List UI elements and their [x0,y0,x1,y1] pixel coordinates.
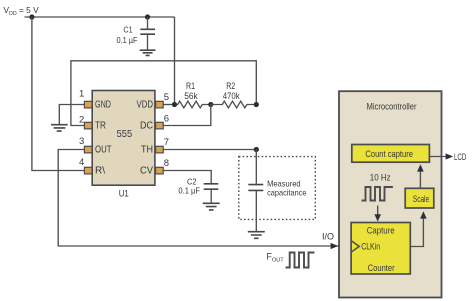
pin number 2 [79,115,84,126]
svg-text:R2: R2 [226,81,235,91]
wire TR pin2 to TH node link [71,61,256,126]
svg-text:Scale: Scale [413,194,429,205]
pin 2 [84,122,92,129]
svg-text:10 Hz: 10 Hz [370,172,391,183]
pin label TH [141,145,153,156]
node R2 right junction [254,102,259,107]
svg-text:FOUT: FOUT [267,251,285,263]
svg-text:6: 6 [164,114,169,125]
label CLKin [361,242,380,253]
pin 4 [84,167,92,174]
node C1 tap junction [145,14,150,19]
svg-text:555: 555 [117,128,133,140]
svg-text:470k: 470k [223,91,240,101]
svg-text:C1: C1 [123,24,132,34]
label Capture [367,225,395,236]
svg-text:Capture: Capture [367,225,395,236]
pin number 8 [164,158,169,169]
svg-text:0.1 µF: 0.1 µF [117,35,138,45]
ground below C1 [140,50,156,55]
ic 555 U1 body [92,91,155,186]
svg-text:Microcontroller: Microcontroller [367,101,417,112]
svg-text:R\: R\ [95,166,105,177]
label Count capture [365,149,413,160]
label R2 470k [223,81,240,101]
pin 7 [156,146,164,153]
svg-text:CV: CV [140,166,153,177]
wire measured capacitor to ground [255,190,257,231]
label Scale [413,194,429,205]
ground below C2 [203,203,220,210]
wire scale to count capture [417,164,424,188]
wire count capture to LCD [429,156,447,158]
value label C2 0.1 uF [178,177,200,196]
capacitor C2 [204,184,219,203]
node TH junction [254,147,259,152]
clock input triangle CLKin [351,241,359,253]
svg-text:R1: R1 [186,81,195,91]
pin 5 [156,101,164,108]
label 10 Hz [370,172,391,183]
pin number 6 [164,114,169,125]
wire top VDD rail [25,16,175,18]
pin number 3 [79,136,84,147]
svg-text:TR: TR [95,121,106,132]
capacitor measured [248,185,263,191]
wire node into measured capacitor [255,150,257,184]
svg-text:56k: 56k [184,91,198,101]
label I/O [322,232,334,242]
wire pin1 GND to ground [59,105,85,125]
value label C1 0.1 uF [117,24,138,45]
pin label R\ [95,166,105,177]
svg-text:7: 7 [164,137,169,148]
svg-text:DC: DC [140,121,153,132]
pin number 1 [79,88,84,99]
label Microcontroller [367,101,417,112]
block count capture [352,145,430,163]
pin 8 [156,167,164,174]
waveform FOUT [286,253,315,268]
waveform 10 Hz [362,187,393,201]
label R1 56k [184,81,198,101]
ground below measured capacitor [248,232,265,239]
label Counter [368,263,395,274]
wire OUT pin3 to bottom rail to microcontroller [58,150,351,247]
svg-text:CLKin: CLKin [361,242,380,253]
dashed box measured capacitance [239,157,315,220]
wire pin5 to R1 [164,104,175,106]
svg-text:GND: GND [95,100,111,111]
wire R1R2 junction to DC pin6 [164,105,211,126]
svg-text:3: 3 [79,136,84,147]
label FOUT [267,251,285,263]
svg-text:LCD: LCD [454,152,466,163]
arrow into microcontroller [331,243,339,249]
pin number 5 [164,92,169,103]
ic label 555 [117,128,133,140]
pin 6 [156,122,164,129]
capacitor C1 [140,17,155,50]
label LCD [454,152,466,163]
svg-text:0.1 µF: 0.1 µF [178,186,200,196]
block scale [405,188,434,208]
arrow waveform to capture [374,206,381,222]
wire CV pin8 to C2 [164,171,212,184]
pin number 4 [79,157,84,168]
microcontroller box [339,91,442,297]
pin label OUT [95,145,112,156]
svg-text:U1: U1 [119,188,129,199]
svg-text:capacitance: capacitance [267,187,307,197]
svg-text:5: 5 [164,92,169,103]
svg-text:1: 1 [79,88,84,99]
svg-text:Count capture: Count capture [365,149,413,160]
node R1 left junction [172,102,177,107]
arrow to LCD [446,153,454,159]
node VDD junction [29,14,34,19]
pin label CV [140,166,153,177]
pin 3 [84,146,92,153]
ground at pin 1 [51,125,68,131]
svg-text:Counter: Counter [368,263,395,274]
pin label DC [140,121,153,132]
pin number 7 [164,137,169,148]
svg-text:4: 4 [79,157,84,168]
svg-text:TH: TH [141,145,153,156]
wire VDD down to reset pin 4 [32,17,85,171]
pin label VDD [137,100,154,111]
svg-text:2: 2 [79,115,84,126]
label measured capacitance [267,179,307,198]
wire TH pin7 to node [164,149,257,151]
svg-text:8: 8 [164,158,169,169]
pin label TR [95,121,106,132]
resistor R2 [211,101,256,108]
node R1 R2 junction [208,102,213,107]
wire counter to scale [410,211,426,246]
svg-text:OUT: OUT [95,145,112,156]
pin 1 [84,101,92,108]
block counter [351,223,410,275]
refdes U1 [119,188,129,199]
pin label GND [95,100,111,111]
node VDD label [4,5,40,17]
svg-text:I/O: I/O [322,232,334,242]
resistor R1 [175,101,211,108]
svg-text:VDD: VDD [137,100,154,111]
wire VDD rail down to pin 5 [174,17,176,105]
